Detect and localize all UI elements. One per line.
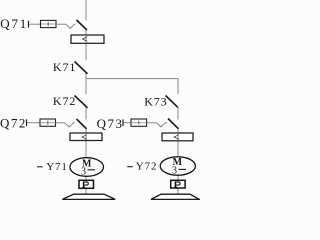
label -Y71 — [37, 166, 43, 168]
wire: left bus top segment — [85, 0, 87, 21]
wire: left bus segment Q72 switch to motor — [85, 129, 87, 159]
svg-text:Y72: Y72 — [136, 161, 158, 173]
wire: left bus segment K72 to Q72 switch — [85, 108, 87, 120]
pressure sensor P right — [171, 180, 185, 188]
switch blade Q71 — [77, 20, 88, 30]
svg-text:Q73: Q73 — [97, 116, 124, 131]
wire: branch from node at left bus to right bus — [86, 79, 178, 95]
svg-text:Q72: Q72 — [0, 115, 27, 130]
wire: Q72 lead to fuse — [27, 122, 40, 124]
wire: left bus segment below Q71 switch — [85, 30, 87, 60]
pump symbol left (trapezoid) — [62, 194, 115, 199]
wire: fuse Q71 to switch with kink — [56, 24, 75, 28]
wire: Q73 lead to fuse — [124, 122, 132, 124]
svg-text:<: < — [82, 34, 88, 46]
motor M2 — [160, 157, 195, 177]
pressure sensor P left — [79, 180, 94, 188]
wire: right bus P box to pump — [177, 188, 179, 194]
undercurrent relay box top (<) — [71, 34, 104, 46]
switch blade Q73 — [168, 119, 179, 129]
svg-text:K71: K71 — [53, 60, 76, 74]
svg-text:<: < — [81, 131, 87, 143]
undercurrent relay box left (<) — [70, 131, 102, 143]
contact K73 — [144, 94, 178, 108]
svg-text:3: 3 — [172, 166, 177, 177]
contact K72 — [53, 94, 88, 108]
fuse Q73 — [131, 119, 147, 126]
wire: left bus segment K71 to K72 — [85, 74, 87, 95]
switch blade Q72 — [77, 119, 87, 129]
wire: Q71 lead to fuse — [29, 23, 41, 25]
wire: left bus motor to P box — [85, 176, 87, 180]
label -Y72 — [127, 166, 133, 168]
terminal tick Q72 — [26, 119, 28, 126]
wire: fuse Q72 to switch with kink — [56, 123, 76, 127]
fuse Q72 — [40, 119, 56, 126]
wire: right bus segment K73 to Q73 switch — [177, 107, 179, 120]
terminal tick Q71 — [28, 21, 30, 28]
svg-text:Y71: Y71 — [46, 161, 68, 173]
wire: fuse Q73 to switch with kink — [147, 123, 167, 127]
wire: right bus segment Q73 switch to motor — [177, 129, 179, 158]
svg-text:<: < — [173, 132, 179, 144]
terminal tick Q73 — [122, 119, 124, 126]
svg-text:K72: K72 — [53, 94, 76, 108]
svg-text:Q71: Q71 — [0, 16, 28, 31]
contact K71 — [53, 60, 88, 74]
svg-text:K73: K73 — [144, 94, 167, 108]
svg-text:3: 3 — [81, 167, 86, 178]
wire: right bus motor to P box — [177, 175, 179, 180]
motor M1 — [70, 158, 104, 178]
fuse Q71 — [41, 20, 57, 27]
undercurrent relay box right (<) — [162, 132, 193, 144]
wire: left bus P box to pump — [85, 188, 87, 194]
pump symbol right (trapezoid) — [151, 194, 199, 199]
